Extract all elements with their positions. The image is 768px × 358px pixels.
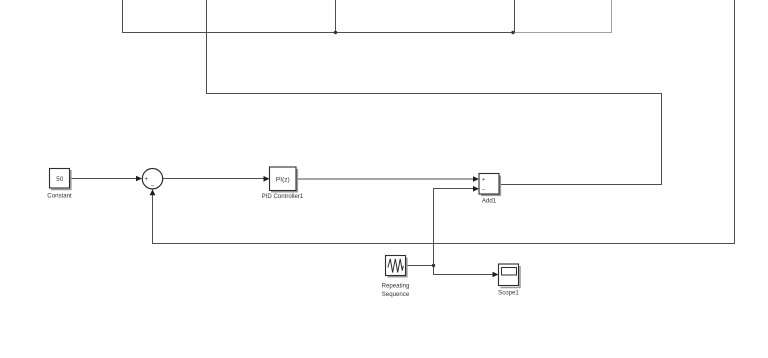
svg-text:Repeating: Repeating: [382, 282, 410, 289]
svg-text:+: +: [482, 177, 485, 183]
svg-text:PID Controller1: PID Controller1: [262, 193, 304, 200]
svg-text:Constant: Constant: [47, 192, 72, 199]
svg-text:+: +: [144, 177, 148, 183]
svg-text:Sequence: Sequence: [382, 291, 410, 298]
svg-text:50: 50: [56, 176, 63, 183]
svg-text:−: −: [482, 188, 485, 194]
svg-text:Add1: Add1: [482, 197, 497, 204]
svg-text:−: −: [151, 184, 155, 190]
svg-text:Scope1: Scope1: [498, 289, 519, 296]
svg-text:PI(z): PI(z): [276, 176, 290, 183]
